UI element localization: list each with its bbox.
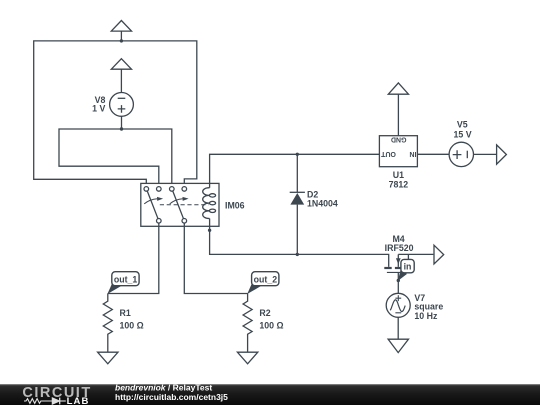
regulator U1 box [379, 136, 417, 167]
wire U1 IN to V5 [417, 153, 449, 155]
svg-text:1N4004: 1N4004 [307, 199, 338, 209]
wire relay pin 5 to R1 [108, 223, 159, 293]
voltage source V7 [386, 293, 410, 339]
svg-text:out_2: out_2 [254, 274, 278, 284]
junction dot (D2 bottom) [296, 253, 299, 256]
voltage source V5 [449, 142, 497, 166]
node arrow (right of V5) [497, 145, 507, 164]
svg-text:R1: R1 [120, 308, 131, 318]
relay actuation arrow 2 [170, 197, 189, 204]
footer bar [0, 384, 540, 405]
junction dot (top rail) [120, 39, 123, 42]
relay coil [203, 188, 216, 219]
logo resistor-diode doodle [24, 397, 66, 404]
label R1 100ohm [120, 308, 144, 330]
resistor R1 [103, 294, 112, 353]
svg-text:http://circuitlab.com/cetn3j5: http://circuitlab.com/cetn3j5 [115, 392, 228, 402]
ground (R2) [237, 352, 257, 364]
voltage source V8 [110, 93, 134, 130]
label D2 1N4004 [307, 189, 338, 208]
svg-text:R2: R2 [259, 308, 270, 318]
relay IM06 body [141, 183, 219, 226]
svg-text:LAB: LAB [67, 396, 90, 405]
svg-text:GND: GND [391, 135, 407, 142]
junction dot (MOSFET source node) [397, 279, 400, 282]
label V7 square 10 Hz [414, 293, 443, 321]
label V5 15 V [454, 120, 472, 140]
ground (V7) [388, 339, 408, 352]
wire V8 to relay pin 3 [122, 129, 172, 187]
wire outer loop to relay pins 1 and 4 [34, 41, 197, 187]
svg-text:1 V: 1 V [92, 104, 105, 114]
relay switch arm 2 [173, 191, 184, 219]
svg-text:15 V: 15 V [454, 129, 472, 139]
node arrow (right of M4) [434, 245, 444, 264]
relay top pins [144, 187, 187, 192]
svg-text:OUT: OUT [380, 150, 396, 157]
label R2 100ohm [259, 308, 283, 330]
power flag (above V8) [111, 59, 131, 93]
ground (R1) [98, 352, 118, 364]
node flag out_1 [107, 272, 139, 294]
relay bottom pins [157, 219, 187, 224]
wire relay coil to U1 OUT [210, 154, 380, 187]
power flag (above U1) [388, 83, 408, 136]
svg-text:10 Hz: 10 Hz [414, 311, 438, 321]
relay linkage dashed line [160, 204, 209, 206]
diode D2 [290, 154, 305, 254]
svg-text:7812: 7812 [389, 179, 409, 189]
svg-text:in: in [404, 262, 412, 272]
svg-text:100 Ω: 100 Ω [259, 320, 283, 330]
node flag out_2 [247, 272, 279, 294]
U1 pin labels GND OUT IN [380, 135, 416, 157]
svg-text:IN: IN [410, 150, 417, 157]
svg-text:IM06: IM06 [225, 201, 245, 211]
label M4 IRF520 [385, 234, 414, 253]
wire V8 to relay pin 2 [59, 129, 159, 187]
svg-text:100 Ω: 100 Ω [120, 320, 144, 330]
label U1 7812 [389, 170, 409, 189]
svg-text:V5: V5 [457, 120, 468, 130]
power flag (top of outer loop) [111, 21, 131, 41]
relay actuation arrow 1 [144, 197, 163, 204]
junction dot (V8 bottom) [120, 127, 123, 130]
junction dot (coil bottom) [208, 229, 211, 232]
junction dot (D2 top) [296, 153, 299, 156]
label V8 1 V [92, 95, 105, 114]
wire coil bottom rail to MOSFET gate [210, 219, 389, 267]
relay switch arm 1 [147, 191, 158, 219]
svg-text:IRF520: IRF520 [385, 243, 414, 253]
wire MOSFET drain rail [398, 254, 433, 259]
svg-text:out_1: out_1 [114, 274, 138, 284]
MOSFET M4 [384, 254, 403, 293]
resistor R2 [243, 294, 252, 353]
wire relay pin 6 to R2 [184, 223, 247, 293]
node flag in [398, 259, 414, 281]
